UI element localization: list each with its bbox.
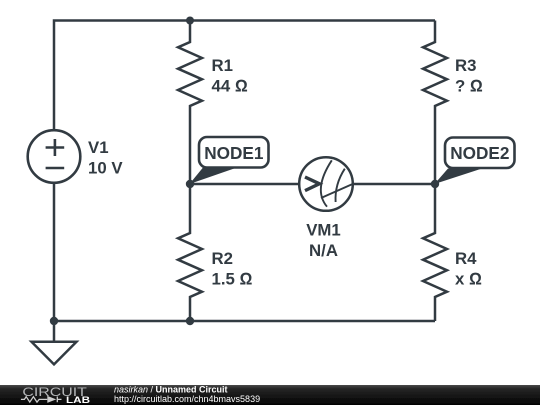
wire: middle right (voltmeter to NODE2) xyxy=(352,183,435,186)
wire: middle left (NODE1 to voltmeter) xyxy=(190,183,300,186)
node NODE2 junction xyxy=(431,180,439,188)
svg-text:V1: V1 xyxy=(88,138,109,157)
svg-text:NODE1: NODE1 xyxy=(204,143,264,163)
ground xyxy=(32,342,77,365)
svg-text:R4: R4 xyxy=(455,249,477,268)
svg-text:R2: R2 xyxy=(212,249,233,268)
label R2 value xyxy=(212,249,253,289)
svg-text:LAB: LAB xyxy=(66,395,91,405)
footer bar xyxy=(0,385,540,405)
node: bottom rail / R2 junction xyxy=(186,317,194,325)
resistor R1 xyxy=(178,21,202,185)
voltage source V1 xyxy=(28,130,81,183)
node: ground junction xyxy=(50,317,58,325)
label V1 value xyxy=(88,138,123,178)
label R4 value xyxy=(455,249,482,289)
footer logo diode triangle xyxy=(47,396,56,403)
node NODE2 callout xyxy=(435,138,515,185)
label R1 value xyxy=(212,56,248,96)
svg-text:1.5 Ω: 1.5 Ω xyxy=(212,270,253,289)
node NODE1 junction xyxy=(186,180,194,188)
label VM1 value xyxy=(306,221,341,261)
label R3 value xyxy=(455,56,483,96)
svg-text:x Ω: x Ω xyxy=(455,270,482,289)
svg-text:http://circuitlab.com/chn4bmav: http://circuitlab.com/chn4bmavs5839 xyxy=(114,394,260,404)
svg-text:10 V: 10 V xyxy=(88,159,123,178)
resistor R4 xyxy=(423,184,447,321)
svg-text:N/A: N/A xyxy=(309,241,338,260)
node: top rail / R1 junction xyxy=(186,17,194,25)
svg-text:? Ω: ? Ω xyxy=(455,77,483,96)
footer logo waveform xyxy=(21,397,62,403)
wire: bottom rail xyxy=(54,320,435,323)
svg-text:VM1: VM1 xyxy=(306,221,341,240)
svg-text:R3: R3 xyxy=(455,56,476,75)
resistor R2 xyxy=(178,184,202,321)
svg-text:R1: R1 xyxy=(212,56,233,75)
wire: V1 bottom down to ground xyxy=(53,184,56,342)
voltmeter VM1 xyxy=(299,157,353,211)
svg-text:44 Ω: 44 Ω xyxy=(212,77,248,96)
svg-text:NODE2: NODE2 xyxy=(450,143,509,163)
node NODE1 callout xyxy=(190,137,269,184)
wire: top rail from V1 top across to R3 xyxy=(54,21,435,130)
resistor R3 xyxy=(423,21,447,185)
